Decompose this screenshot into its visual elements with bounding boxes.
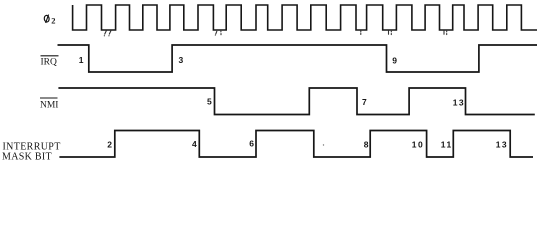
svg-text:13: 13	[453, 97, 465, 107]
svg-text:7: 7	[362, 97, 367, 107]
svg-text:2: 2	[51, 16, 55, 26]
svg-text:1: 1	[79, 55, 84, 65]
svg-text:8: 8	[364, 140, 369, 150]
svg-text:5: 5	[207, 97, 212, 107]
svg-text:IRQ: IRQ	[41, 57, 58, 67]
svg-text:9: 9	[392, 55, 397, 65]
svg-text:2: 2	[107, 140, 112, 150]
svg-text:4: 4	[192, 139, 197, 149]
svg-text:11: 11	[441, 139, 453, 149]
svg-text:NMI: NMI	[40, 101, 58, 111]
svg-text:3: 3	[179, 55, 184, 65]
svg-text:MASK BIT: MASK BIT	[2, 152, 52, 163]
svg-text:10: 10	[412, 139, 424, 149]
svg-text:6: 6	[249, 139, 254, 149]
svg-text:13: 13	[496, 140, 508, 150]
